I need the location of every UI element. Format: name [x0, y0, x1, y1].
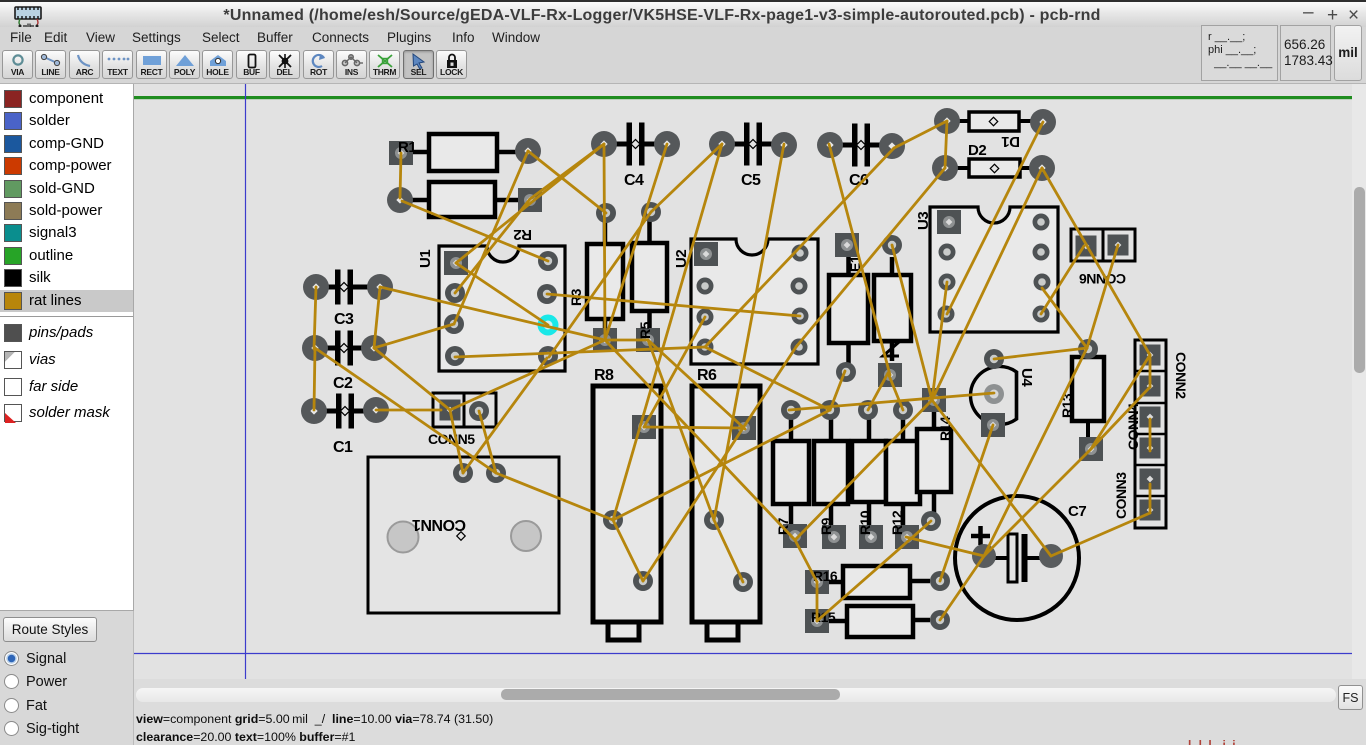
svg-text:CONN1: CONN1 [412, 516, 466, 533]
transistor U4 [971, 366, 1035, 424]
R10 pad 1 [858, 400, 878, 420]
svg-text:C4: C4 [624, 172, 644, 189]
C5 pad 1 [709, 131, 735, 157]
E1 pad - [836, 362, 856, 382]
op-amp U1 [417, 246, 565, 371]
capacitor C4 [605, 123, 667, 190]
R9 pad 2 [822, 525, 846, 549]
outline layer: board top edge [134, 96, 1352, 99]
U1 pin 4 [445, 346, 465, 366]
U3 pin 6 [1034, 274, 1051, 291]
resistor R2 [407, 182, 532, 243]
R5 pad 2 [636, 328, 660, 352]
CONN6 pad 1 [1076, 236, 1097, 257]
U3 pin 5 [1033, 306, 1050, 323]
CONN2/3/4 pad 1 [1140, 345, 1161, 366]
capacitor C6 [830, 124, 892, 190]
svg-text:R2: R2 [514, 226, 532, 243]
U1 pin 2 [445, 283, 465, 303]
diode D1 [958, 112, 1032, 150]
U2 pin 1 [694, 242, 718, 266]
U3 pin 2 [939, 244, 956, 261]
D2 pad 2 [1029, 155, 1055, 181]
rat lines layer [314, 121, 1150, 621]
connector CONN2/CONN4/CONN3 [1113, 340, 1189, 528]
op-amp U2 [673, 239, 818, 364]
R7 pad 1 [781, 400, 801, 420]
op-amp U3 [915, 207, 1058, 332]
CONN1 pad 1 [453, 463, 473, 483]
R14 pad 2 [921, 511, 941, 531]
resistor R5 [632, 212, 667, 340]
svg-text:R10: R10 [857, 510, 873, 535]
R8 pad 3 [633, 571, 653, 591]
U1 pin 1 [444, 251, 468, 275]
C1 pad 2 [363, 397, 389, 423]
R16 pad 2 [930, 571, 950, 591]
resistor R13 [1059, 349, 1104, 440]
trimmer R8 [593, 367, 661, 640]
U1 pin 7 [537, 284, 557, 304]
U1 pin 3 [444, 314, 464, 334]
R16 pad 1 [805, 570, 829, 594]
svg-text:R9: R9 [818, 517, 834, 535]
svg-text:C7: C7 [1068, 503, 1086, 520]
connector CONN5 [428, 393, 496, 447]
C5 pad 2 [771, 132, 797, 158]
svg-text:CONN3: CONN3 [1113, 472, 1129, 519]
svg-text:CONN5: CONN5 [428, 431, 475, 447]
resistor R10 [852, 410, 886, 537]
U1 pin 6 (highlighted) [538, 315, 559, 336]
svg-text:R6: R6 [697, 367, 717, 384]
svg-text:U4: U4 [1018, 368, 1035, 387]
R14 pad 1 [922, 388, 946, 412]
R2 pad 2 [518, 188, 542, 212]
capacitor C1 [314, 394, 376, 457]
svg-text:C5: C5 [741, 172, 761, 189]
C6 pad 1 [817, 132, 843, 158]
U4 pad 2 [984, 384, 1004, 404]
U2 pin 4 [697, 339, 714, 356]
C7 pad - [1039, 544, 1063, 568]
resistor R3 [587, 213, 623, 340]
D3 pad 2 [878, 363, 902, 387]
C4 pad 1 [591, 131, 617, 157]
U2 pin 7 [791, 278, 808, 295]
diode D3 [874, 257, 911, 361]
R15 pad 2 [930, 610, 950, 630]
C1 pad 1 [301, 398, 327, 424]
U3 pin 4 [938, 306, 955, 323]
resistor R1 [407, 134, 516, 171]
connector CONN6 [1071, 229, 1135, 287]
CONN2/3/4 pad 3 [1140, 407, 1161, 428]
capacitor C3 [313, 270, 375, 329]
resistor R7 [773, 410, 809, 536]
CONN5 pad 1 [440, 400, 461, 421]
U2 pin 2 [697, 278, 714, 295]
R1 pad 1 [389, 141, 413, 165]
capacitor E1 [829, 245, 868, 372]
R6 pad 1 [732, 416, 756, 440]
C2 pad 1 [302, 335, 328, 361]
R3 pad 2 [593, 328, 617, 352]
C3 pad 2 [367, 274, 393, 300]
R8 pad 1 [632, 415, 656, 439]
U2 pin 3 [697, 309, 714, 326]
U3 pin 8 [1033, 214, 1050, 231]
D2 pad 1 [932, 155, 958, 181]
R12 pad 2 [895, 525, 919, 549]
R6 pad 3 [733, 572, 753, 592]
trimmer R6 [692, 367, 760, 640]
capacitor C2 [313, 331, 375, 393]
D1 pad 2 [1030, 109, 1056, 135]
svg-text:C1: C1 [333, 439, 353, 456]
U4 pad 3 [981, 413, 1005, 437]
C2 pad 2 [361, 335, 387, 361]
grid origin vertical guide [245, 84, 247, 679]
R2 pad 1 [387, 187, 413, 213]
U2 pin 6 [792, 308, 809, 325]
svg-text:CONN2: CONN2 [1173, 352, 1189, 399]
svg-text:R12: R12 [889, 510, 905, 535]
C6 pad 2 [879, 133, 905, 159]
svg-text:U1: U1 [417, 250, 434, 268]
R9 pad 1 [820, 400, 840, 420]
R3 pad 1 [596, 203, 616, 223]
U1 pin 5 [538, 346, 558, 366]
connector CONN1 [368, 457, 559, 613]
C7 pad + [972, 544, 996, 568]
capacitor C5 [722, 123, 784, 190]
D1 pad 1 [934, 108, 960, 134]
R5 pad 1 [641, 202, 661, 222]
grid origin horizontal guide [134, 653, 1352, 655]
CONN6 pad 2 [1108, 235, 1129, 256]
U4 pad 1 [984, 349, 1004, 369]
R6 pad 2 [704, 510, 724, 530]
svg-text:U3: U3 [915, 212, 932, 230]
C3 pad 1 [303, 274, 329, 300]
R12 pad 1 [893, 400, 913, 420]
svg-text:R5: R5 [637, 321, 653, 339]
U3 pin 3 [939, 274, 956, 291]
D3 pad 1 [882, 235, 902, 255]
svg-text:R8: R8 [594, 367, 614, 384]
capacitor C7 [955, 496, 1086, 620]
svg-text:C2: C2 [333, 375, 353, 392]
CONN2/3/4 pad 5 [1140, 469, 1161, 490]
svg-text:C3: C3 [334, 311, 354, 328]
resistor R9 [814, 410, 848, 537]
R13 pad 2 [1079, 437, 1103, 461]
U3 pin 7 [1033, 244, 1050, 261]
svg-text:D2: D2 [968, 142, 986, 159]
U2 pin 5 [791, 339, 808, 356]
U1 pin 8 [538, 251, 558, 271]
svg-text:R14: R14 [937, 416, 953, 441]
resistor R16 [829, 566, 930, 598]
R10 pad 2 [859, 525, 883, 549]
diode D2 [956, 142, 1031, 177]
R15 pad 1 [805, 609, 829, 633]
resistor R12 [886, 410, 920, 537]
CONN1 pad 2 [486, 463, 506, 483]
CONN5 pad 2 [469, 401, 489, 421]
C4 pad 2 [654, 131, 680, 157]
R8 pad 2 [603, 510, 623, 530]
resistor R14 [917, 400, 951, 521]
R7 pad 2 [783, 524, 807, 548]
svg-text:D1: D1 [1002, 133, 1020, 150]
CONN2/3/4 pad 6 [1140, 500, 1161, 521]
U3 pin 1 [937, 210, 961, 234]
U2 pin 8 [792, 245, 809, 262]
CONN2/3/4 pad 2 [1140, 376, 1161, 397]
R1 pad 2 [515, 138, 541, 164]
CONN2/3/4 pad 4 [1140, 438, 1161, 459]
E1 pad + [835, 233, 859, 257]
R13 pad 1 [1078, 339, 1098, 359]
resistor R15 [829, 606, 930, 637]
